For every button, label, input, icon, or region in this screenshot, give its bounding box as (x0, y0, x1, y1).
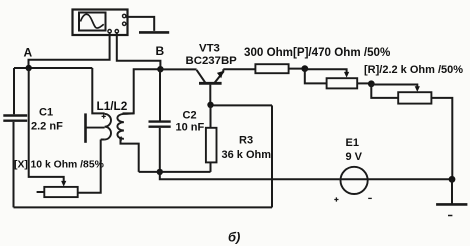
capacitor C2 top lead (159, 69, 161, 120)
resistor R3 body (206, 128, 217, 163)
node A dot (26, 65, 32, 71)
base node wire to riser (211, 104, 273, 106)
ground lead (451, 179, 453, 204)
oscilloscope terminal bottom-right (115, 30, 118, 33)
transformer drop to node B rail (123, 69, 161, 113)
bottom rail (14, 206, 273, 208)
chassis ground bar (139, 31, 169, 34)
node C2-bottom junction dot (157, 169, 163, 175)
svg-text:300 Ohm[P]/470 Ohm /50%: 300 Ohm[P]/470 Ohm /50% (244, 46, 390, 59)
wire pot P to junction R (357, 82, 371, 84)
svg-text:36 k Ohm: 36 k Ohm (222, 149, 272, 161)
transformer core tap bar (84, 113, 87, 142)
svg-text:A: A (24, 46, 33, 60)
svg-text:б): б) (228, 230, 240, 245)
pot X right lead up to transformer L1 bottom (78, 140, 101, 193)
wire transformer bottom to R3 bottom (139, 171, 211, 173)
transformer tap line (86, 127, 105, 129)
oscilloscope sine trace (81, 14, 104, 28)
wire emitter to resistor 300 Ohm (223, 68, 255, 70)
L1 polarity plus (102, 114, 106, 118)
svg-text:BC237BP: BC237BP (186, 55, 238, 67)
oscilloscope terminal right-bottom (123, 22, 126, 25)
svg-text:10 nF: 10 nF (176, 122, 205, 134)
ground tick (448, 215, 452, 217)
potentiometer R body (398, 92, 431, 103)
inductor L2 winding (117, 114, 123, 139)
pot R wiper wire (371, 85, 417, 88)
capacitor C1 plates (3, 116, 27, 121)
capacitor C2 plates (149, 122, 171, 127)
resistor R3 top lead (210, 105, 212, 128)
riser from bottom rail to base node wire (271, 105, 273, 207)
svg-text:C2: C2 (183, 110, 197, 122)
L2 polarity plus (119, 137, 123, 141)
pot P wiper wire (305, 69, 347, 73)
wire junction down to pot R (371, 84, 398, 98)
node B dot (157, 66, 163, 72)
svg-text:E1: E1 (346, 137, 359, 149)
transistor VT3 emitter arrowhead (217, 71, 224, 78)
battery minus mark (368, 197, 372, 199)
junction dot P1 (301, 65, 308, 72)
svg-text:L1/L2: L1/L2 (97, 99, 128, 113)
L1 bottom stub (101, 139, 105, 141)
pot X wiper arrowhead (61, 181, 66, 187)
oscilloscope P1 body (73, 10, 128, 36)
wire junction down to battery rail (160, 172, 340, 179)
transistor VT3 base bar (199, 82, 222, 85)
L2 top stub (124, 112, 134, 115)
wire pot R to right riser (431, 98, 452, 179)
svg-text:B: B (156, 44, 165, 58)
potentiometer P body (327, 78, 358, 88)
svg-text:9 V: 9 V (346, 151, 363, 163)
ground bar (436, 203, 467, 206)
L2 bottom lead to C2 bottom wire (121, 139, 139, 172)
node A rail (14, 67, 92, 69)
svg-text:[R]/2.2 k Ohm /50%: [R]/2.2 k Ohm /50% (364, 64, 463, 76)
wire 300 Ohm to junction (289, 68, 305, 70)
wire scope left probe down to node A level (29, 32, 110, 68)
capacitor C2 bottom lead (159, 128, 161, 172)
svg-text:2.2 nF: 2.2 nF (31, 121, 63, 133)
pot X left stub (37, 191, 45, 193)
capacitor C1 top lead (13, 68, 15, 114)
svg-text:C1: C1 (39, 107, 53, 119)
pot R wiper arrowhead (415, 86, 420, 92)
pot P wiper arrowhead (344, 72, 349, 78)
ground junction dot (449, 176, 456, 183)
svg-text:VT3: VT3 (199, 43, 220, 55)
svg-text:10 k Ohm /85%: 10 k Ohm /85% (31, 160, 104, 171)
junction dot R (368, 80, 375, 87)
inductor L1 winding (105, 114, 111, 140)
capacitor C1 bottom lead (13, 122, 15, 207)
wire junction down to pot P (305, 69, 327, 84)
oscilloscope terminal right-top (123, 14, 126, 17)
svg-text:R3: R3 (239, 135, 253, 147)
resistor R3 bottom lead (210, 162, 212, 172)
transformer drop from A rail (92, 68, 104, 113)
resistor 300 Ohm body (255, 64, 288, 73)
oscilloscope screen (79, 13, 106, 31)
transistor VT3 emitter diagonal (215, 69, 224, 83)
battery rail through circle (340, 178, 452, 180)
oscilloscope terminal bottom-left (108, 30, 111, 33)
svg-text:[X]: [X] (14, 160, 28, 171)
wire node A down to pot X wiper (29, 68, 64, 183)
transistor VT3 collector diagonal (197, 70, 206, 83)
potentiometer X body (44, 187, 77, 197)
battery E1 circle (341, 167, 368, 194)
transistor VT3 base lead (209, 85, 211, 105)
battery plus mark (334, 197, 338, 201)
wire node B to transistor collector (160, 68, 196, 70)
base junction dot (207, 102, 213, 108)
wire scope right probe down to node B (117, 32, 161, 69)
wire scope top terminal to chassis ground (126, 17, 154, 31)
